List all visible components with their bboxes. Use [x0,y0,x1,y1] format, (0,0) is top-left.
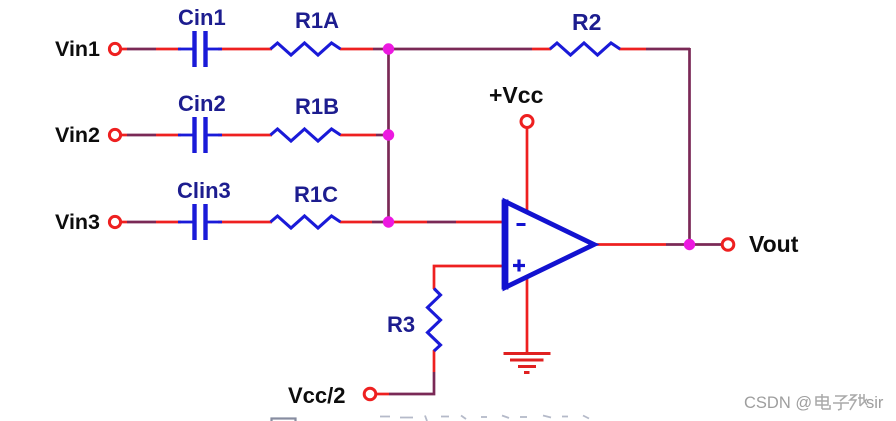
wire op-amp plus to R3 corner [434,266,505,289]
wire R3 bottom corner (purple part) [389,372,434,394]
svg-text:Vin1: Vin1 [55,37,100,61]
wire into op-amp minus (red) [456,221,506,224]
resistor R2 [550,43,620,55]
svg-text:Cin1: Cin1 [178,5,226,30]
terminal Vin3 [109,216,120,227]
wire Vin2 to Cin2 (purple part) [120,134,127,137]
wire to R2 left (red part) [532,48,551,51]
wire R2 to right corner (purple part) [646,48,690,51]
wire Vin3 to Clin3 (red part) [156,221,181,224]
wire Vin3 to Clin3 (purple part) [120,221,127,224]
terminal +Vcc [521,116,533,128]
svg-text:Clin3: Clin3 [177,178,231,203]
wire Clin3 to R1C [218,221,272,224]
wire Vin2 to Cin2 (red part) [156,134,181,137]
watermark glyph zhang [850,394,867,410]
capacitor Clin3 [178,204,222,240]
wire node C to op-amp minus (red) [394,221,427,224]
wire R2 right (red part) [619,48,646,51]
capacitor Cin1 [178,31,222,67]
wire R1A to node A (red part) [340,48,373,51]
wire row1 segments [120,48,721,394]
resistor R3 [428,289,441,352]
ground [504,354,551,373]
watermark glyph dian [816,394,830,409]
wire op-amp to ground [526,274,529,353]
svg-text:Vcc/2: Vcc/2 [288,383,346,408]
svg-text:Cin2: Cin2 [178,91,226,116]
terminal Vin2 [109,129,120,140]
wire +Vcc down to op-amp [526,129,529,216]
terminal Vcc/2 [364,388,376,400]
terminal Vin1 [109,43,120,54]
node C junction dot [383,216,394,227]
node B junction dot [383,129,394,140]
wire Cin2 to R1B [218,134,272,137]
wire Cin1 to R1A [218,48,272,51]
op-amp plus sign [513,260,525,272]
svg-text:Vout: Vout [749,231,799,257]
wire node C to op-amp minus (purple part) [427,221,456,224]
svg-text:Vin3: Vin3 [55,210,100,234]
svg-text:R1B: R1B [295,94,339,119]
node Vout junction dot [684,239,695,250]
svg-text:Vin2: Vin2 [55,123,100,147]
watermark glyph zi [833,396,849,410]
svg-text:R2: R2 [572,9,601,35]
wire right vertical feedback [688,48,691,245]
resistor R1A [271,43,341,55]
node A junction dot [383,43,394,54]
svg-text:CSDN @: CSDN @ [744,394,812,412]
svg-text:+Vcc: +Vcc [489,82,544,108]
wire Vin1 to Cin1 (purple part) [120,48,127,51]
capacitor Cin2 [178,117,222,153]
wire Vin1 to Cin1 (red part) [156,48,181,51]
wire R3 bottom (red part) [433,350,436,372]
svg-text:R3: R3 [387,312,415,337]
wire R1C to node C (red part) [340,221,372,224]
resistor R1B [271,129,341,141]
wire R1B to node B (red part) [340,134,376,137]
wire output to Vout terminal (purple part) [666,243,721,246]
wire op-amp output (red part) [595,243,666,246]
svg-text:R1C: R1C [294,182,338,207]
svg-text:R1A: R1A [295,8,339,33]
wire R1A to node A (purple part) [373,48,389,51]
wire R1B to node B (purple part) [376,134,389,137]
op-amp minus sign [517,223,526,226]
wire node bus vertical [387,49,390,222]
terminal Vout [722,239,734,251]
svg-text:sir: sir [866,394,884,412]
wire node A to R2 (purple part) [388,48,532,51]
wire R1C to node C (purple part) [372,221,389,224]
caption partial top strokes at bottom [272,416,590,421]
op-amp U1 [505,202,594,288]
resistor R1C [271,216,341,228]
